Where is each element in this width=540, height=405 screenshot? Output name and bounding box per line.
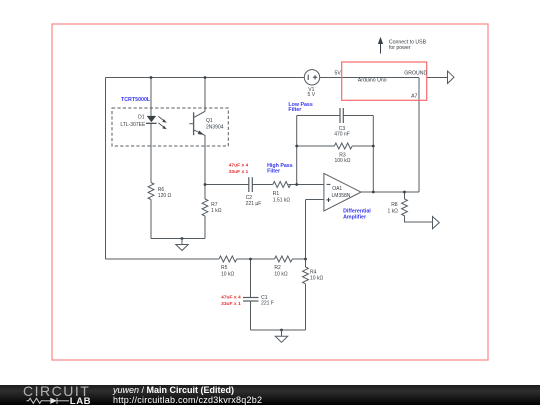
wire R1 to op-amp minus input (288, 184, 324, 186)
op-amp OA1 (324, 173, 361, 211)
svg-text:Filter: Filter (267, 169, 280, 175)
svg-text:R1: R1 (273, 191, 280, 197)
footer bar (0, 385, 540, 405)
svg-text:Amplifier: Amplifier (343, 214, 366, 220)
svg-text:C2: C2 (246, 195, 253, 201)
svg-text:10 kΩ: 10 kΩ (274, 272, 287, 278)
resistor R3 (334, 143, 352, 149)
wire R5 to R2 (237, 258, 275, 260)
schematic border frame (52, 24, 488, 360)
diode D1 (LED) (146, 116, 167, 129)
Arduino Uno annotation box (342, 62, 427, 100)
svg-text:1 kΩ: 1 kΩ (211, 208, 222, 214)
svg-text:LTL-307EE: LTL-307EE (120, 122, 146, 128)
svg-text:GROUND: GROUND (404, 70, 427, 76)
svg-text:Q1: Q1 (206, 118, 213, 124)
wire R6 bottom (150, 200, 152, 239)
svg-text:33uF x 1: 33uF x 1 (229, 169, 249, 175)
resistor R5 (219, 256, 237, 262)
resistor R8 (402, 199, 408, 216)
wire op-amp plus input (306, 199, 324, 201)
resistor R2 (275, 256, 293, 262)
svg-text:LAB: LAB (70, 396, 91, 405)
node dot output/R8 (403, 191, 406, 194)
footer title (113, 385, 262, 405)
node dot R5/R2/C1 (249, 258, 252, 261)
svg-text:R5: R5 (221, 265, 228, 271)
wire bottom C1-R4 rail (251, 329, 306, 331)
node dot Q1 top (204, 76, 207, 79)
svg-text:221 F: 221 F (261, 301, 274, 307)
wire top rail (106, 77, 305, 79)
logo resistor-diode symbol and LAB (0, 385, 100, 405)
wire Q1 collector (204, 78, 206, 112)
wire bottom-left horizontal to R5 (106, 258, 220, 260)
svg-text:10 kΩ: 10 kΩ (221, 272, 234, 278)
wire C3 to feedback right (343, 115, 373, 117)
svg-text:5V: 5V (334, 70, 341, 76)
svg-text:47uF x 4: 47uF x 4 (229, 163, 249, 169)
svg-text:Filter: Filter (288, 107, 301, 113)
voltage source V1 (304, 70, 319, 85)
svg-text:221 µF: 221 µF (246, 201, 262, 207)
svg-text:R4: R4 (310, 269, 317, 275)
wire feedback top to C3 (297, 115, 340, 117)
wire A7 vertical (418, 78, 420, 193)
svg-text:2N3904: 2N3904 (206, 124, 224, 130)
capacitor C2 (249, 177, 253, 192)
wire top rail right of V1 (320, 77, 419, 79)
resistor R7 (202, 199, 208, 216)
svg-text:OA1: OA1 (332, 186, 342, 192)
svg-text:10 kΩ: 10 kΩ (310, 276, 323, 282)
node dot R3 right (372, 145, 375, 148)
wire R2 to node (292, 258, 306, 260)
svg-text:R8: R8 (391, 202, 398, 208)
svg-text:5 V: 5 V (308, 92, 316, 98)
svg-text:TCRT5000L: TCRT5000L (121, 97, 151, 103)
logo CIRCUIT (23, 385, 90, 397)
wire R8 top lead (404, 192, 406, 199)
svg-text:Arduino Uno: Arduino Uno (358, 78, 387, 84)
wire feedback right vertical (372, 116, 374, 193)
resistor R4 (303, 267, 309, 284)
wire R8 bottom to output flag (405, 216, 433, 223)
node dot ground2 (280, 329, 283, 332)
svg-text:for power: for power (389, 45, 411, 51)
flag output (433, 217, 440, 229)
node dot ground1 (181, 237, 184, 240)
wire R3 left lead (297, 145, 335, 147)
wire node Q1-emitter to R7 (204, 185, 206, 200)
svg-text:R6: R6 (158, 187, 165, 193)
svg-text:470 nF: 470 nF (334, 132, 350, 138)
wire Q1 emitter down (204, 135, 206, 185)
svg-text:1.51 kΩ: 1.51 kΩ (273, 197, 291, 203)
wire R7 bottom (204, 216, 206, 239)
resistor R1 (273, 182, 291, 188)
wire R4 top lead (305, 259, 307, 267)
wire D1 branch upper (150, 78, 152, 116)
capacitor C1 (243, 298, 259, 302)
wire op-amp output rail (361, 191, 419, 193)
svg-text:R7: R7 (211, 202, 218, 208)
flag GROUND net (448, 71, 455, 83)
wire R4 bottom (305, 284, 307, 330)
node dot output/feedback (372, 191, 375, 194)
node dot R1/feedback (295, 183, 298, 186)
svg-text:100 kΩ: 100 kΩ (335, 158, 351, 164)
svg-text:LM358N: LM358N (332, 193, 351, 199)
dashed sensor box TCRT5000L (112, 108, 228, 146)
wire bottom R6-R7 rail (151, 238, 205, 240)
transistor Q1 (189, 112, 204, 136)
capacitor C3 (340, 108, 343, 123)
svg-text:D1: D1 (138, 114, 145, 120)
wire R3 right lead (352, 145, 373, 147)
wire plus input vertical (305, 200, 307, 260)
wire D1 to R6 (150, 123, 152, 182)
svg-text:33uF x 1: 33uF x 1 (221, 301, 241, 307)
wire C2 to R1 (252, 184, 272, 186)
svg-text:R2: R2 (274, 265, 281, 271)
svg-text:47uF x 4: 47uF x 4 (221, 295, 241, 301)
ground 1 (176, 239, 188, 251)
node dot R2/R4 (304, 258, 307, 261)
wire C1 top lead (250, 259, 252, 298)
node dot R3 left (295, 145, 298, 148)
wire emitter node to C2 (205, 184, 249, 186)
node dot D1 top (150, 76, 153, 79)
wire C1 bottom lead (250, 301, 252, 330)
resistor R6 (148, 183, 154, 200)
svg-text:1 kΩ: 1 kΩ (387, 208, 398, 214)
wire feedback left vertical (296, 116, 298, 185)
ground 2 (275, 330, 287, 342)
svg-text:A7: A7 (411, 94, 417, 100)
svg-text:120 Ω: 120 Ω (158, 193, 172, 199)
wire to GROUND flag (427, 77, 448, 79)
USB arrow (378, 37, 383, 54)
wire left vertical (105, 78, 107, 260)
node dot emitter/C2 (204, 183, 207, 186)
